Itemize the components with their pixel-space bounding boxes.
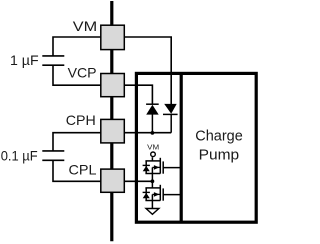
svg-text:VCP: VCP bbox=[68, 65, 97, 81]
wire: D2 cathode to CPH node bbox=[170, 114, 172, 132]
diode D2 (cathode bar) bbox=[163, 113, 178, 115]
capacitor C1 1uF top plate bbox=[42, 55, 64, 57]
transistor Q2 (low-side NMOS with body diode) bbox=[143, 181, 164, 208]
wire: thick vertical motor-supply bus bbox=[110, 1, 113, 241]
capacitor C2 0.1uF top plate bbox=[42, 150, 64, 152]
svg-text:CPH: CPH bbox=[66, 112, 96, 128]
junction dot: diodes / CPH node bbox=[151, 131, 155, 135]
svg-text:Charge: Charge bbox=[195, 129, 243, 145]
wire: Q1 gate lead bbox=[163, 167, 180, 169]
terminal circle VM bbox=[151, 152, 156, 157]
wire: CPH pin right to diode junction bbox=[124, 132, 171, 134]
diode D2 (triangle, pointing down) bbox=[164, 104, 177, 114]
wire: CPH pin to C2 top bbox=[53, 133, 101, 151]
transistor Q1 (high-side NMOS with body diode) bbox=[143, 157, 164, 181]
capacitor C2 0.1uF bottom plate bbox=[42, 159, 64, 161]
wire: Q2 gate lead bbox=[163, 194, 180, 196]
wire: C1 bottom to VCP pin bbox=[53, 65, 101, 85]
charge pump outer block bbox=[136, 73, 256, 222]
pin box CPH bbox=[101, 119, 125, 142]
capacitor C1 1uF bottom plate bbox=[42, 64, 64, 66]
wire: VM pin to C1 top bbox=[53, 37, 101, 56]
ground bbox=[146, 209, 159, 215]
diode D1 (triangle, pointing up) bbox=[146, 105, 159, 115]
wire: D1 anode to CPH node bbox=[151, 115, 153, 133]
svg-text:1 µF: 1 µF bbox=[10, 52, 39, 68]
diode D1 (cathode bar) bbox=[146, 103, 159, 105]
wire: C2 bottom to CPL pin bbox=[53, 160, 101, 181]
svg-text:0.1 µF: 0.1 µF bbox=[1, 147, 38, 163]
pin box VCP bbox=[101, 74, 125, 97]
pin box VM bbox=[101, 25, 125, 49]
svg-text:VM: VM bbox=[147, 143, 159, 152]
svg-text:VM: VM bbox=[73, 18, 97, 34]
wire: VCP pin right to diode D1 cathode bbox=[124, 85, 152, 104]
charge pump divider line bbox=[180, 73, 183, 222]
pin box CPL bbox=[101, 169, 125, 192]
wire: VM pin right to diode D2 anode bbox=[124, 37, 171, 104]
wire: CPL pin right to MOSFET midpoint bbox=[124, 180, 152, 182]
svg-text:CPL: CPL bbox=[69, 161, 97, 177]
junction dot: MOSFET midpoint / CPL node bbox=[151, 179, 155, 183]
svg-text:Pump: Pump bbox=[199, 147, 240, 163]
